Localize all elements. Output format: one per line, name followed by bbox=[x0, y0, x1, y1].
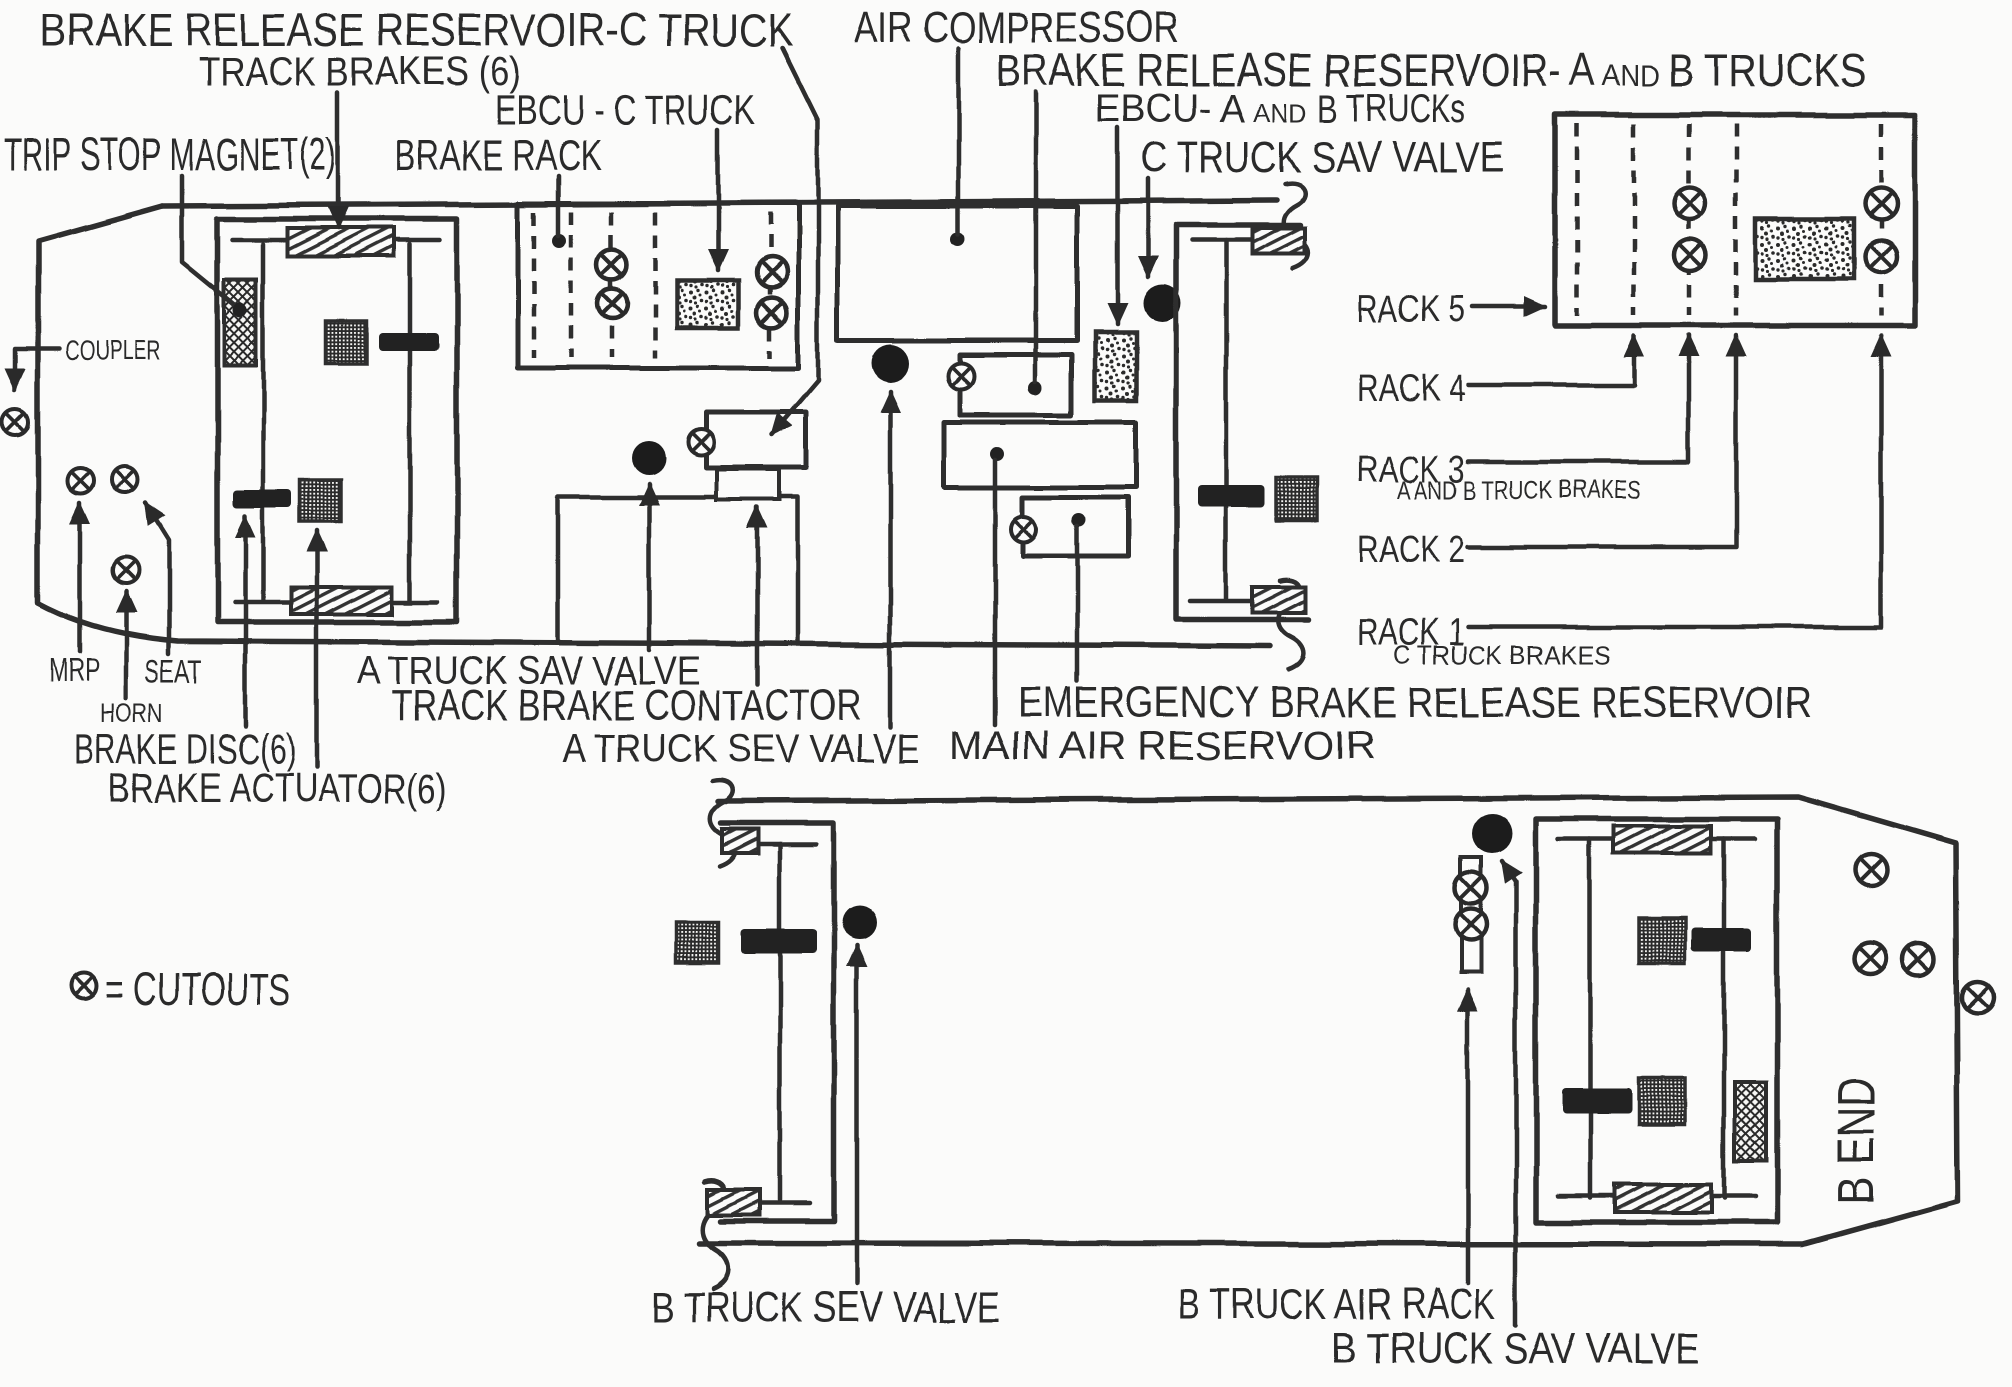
svg-text:EBCU- A: EBCU- A bbox=[1095, 87, 1245, 131]
svg-text:BRAKE ACTUATOR(6): BRAKE ACTUATOR(6) bbox=[109, 764, 447, 811]
svg-text:B TRUCK SAV VALVE: B TRUCK SAV VALVE bbox=[1332, 1324, 1700, 1373]
svg-text:BRAKE RELEASE RESERVOIR-C TRU: BRAKE RELEASE RESERVOIR-C TRUCK bbox=[40, 4, 793, 56]
svg-text:C TRUCK SAV VALVE: C TRUCK SAV VALVE bbox=[1140, 133, 1504, 182]
svg-text:TRIP STOP MAGNET(2): TRIP STOP MAGNET(2) bbox=[4, 128, 336, 180]
svg-text:AND: AND bbox=[1602, 60, 1660, 93]
svg-text:A TRUCK SEV VALVE: A TRUCK SEV VALVE bbox=[562, 727, 920, 771]
svg-text:EBCU - C TRUCK: EBCU - C TRUCK bbox=[495, 86, 755, 133]
svg-text:RACK 4: RACK 4 bbox=[1357, 368, 1465, 410]
svg-text:HORN: HORN bbox=[100, 698, 163, 728]
svg-text:MRP: MRP bbox=[49, 652, 100, 689]
svg-text:A AND B TRUCK BRAKES: A AND B TRUCK BRAKES bbox=[1397, 475, 1641, 505]
svg-text:SEAT: SEAT bbox=[145, 653, 202, 690]
svg-text:B TRUCKS: B TRUCKS bbox=[1668, 44, 1866, 96]
svg-text:= CUTOUTS: = CUTOUTS bbox=[106, 963, 290, 1015]
svg-text:EMERGENCY BRAKE RELEASE RESERV: EMERGENCY BRAKE RELEASE RESERVOIR bbox=[1017, 678, 1812, 727]
svg-text:B TRUCK AIR RACK: B TRUCK AIR RACK bbox=[1178, 1280, 1496, 1329]
svg-text:B TRUCK SEV VALVE: B TRUCK SEV VALVE bbox=[651, 1283, 1000, 1332]
svg-text:AND: AND bbox=[1253, 98, 1308, 128]
svg-text:MAIN AIR RESERVOIR: MAIN AIR RESERVOIR bbox=[950, 724, 1375, 768]
svg-text:COUPLER: COUPLER bbox=[66, 335, 161, 366]
svg-text:B END: B END bbox=[1828, 1077, 1886, 1205]
svg-text:BRAKE RACK: BRAKE RACK bbox=[395, 131, 601, 180]
svg-text:B TRUCKs: B TRUCKs bbox=[1318, 87, 1466, 131]
svg-text:TRACK BRAKES (6): TRACK BRAKES (6) bbox=[198, 50, 521, 94]
svg-text:RACK 5: RACK 5 bbox=[1357, 289, 1465, 331]
svg-text:BRAKE RELEASE RESERVOIR- A: BRAKE RELEASE RESERVOIR- A bbox=[996, 44, 1595, 96]
svg-text:C TRUCK BRAKES: C TRUCK BRAKES bbox=[1394, 640, 1610, 670]
svg-text:RACK 2: RACK 2 bbox=[1357, 529, 1465, 571]
svg-text:TRACK BRAKE CONTACTOR: TRACK BRAKE CONTACTOR bbox=[391, 681, 861, 730]
